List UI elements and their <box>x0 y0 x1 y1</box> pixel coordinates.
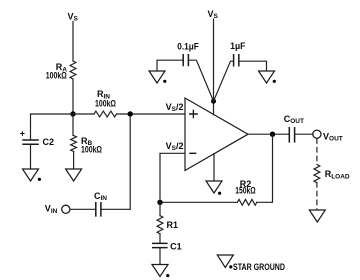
wire (inverting input) <box>160 153 185 202</box>
svg-text:100kΩ: 100kΩ <box>81 144 102 154</box>
wire <box>72 22 74 62</box>
wire <box>239 61 267 71</box>
wire (diagonal from supply node) <box>214 61 234 101</box>
wire <box>30 145 32 169</box>
wire <box>72 114 74 136</box>
capacitor 1uF <box>230 41 245 67</box>
resistor RLOAD <box>314 165 350 183</box>
wire <box>117 113 186 115</box>
legend text STAR GROUND <box>233 262 285 272</box>
wire <box>31 114 74 139</box>
wire (diagonal to supply node) <box>188 60 213 101</box>
svg-text:0.1μF: 0.1μF <box>177 41 199 51</box>
wire <box>295 133 313 135</box>
capacitor COUT <box>284 114 304 143</box>
ground for RB <box>66 169 82 181</box>
capacitor CIN <box>94 191 107 217</box>
wire <box>213 19 215 101</box>
legend: star ground symbol <box>217 255 233 269</box>
wire <box>101 117 130 210</box>
ground (star) right bypass <box>259 71 276 83</box>
wire <box>70 208 96 210</box>
node: output junction <box>270 132 275 137</box>
wire <box>159 202 161 215</box>
resistor R2 <box>235 179 257 205</box>
capacitor 0.1uF <box>177 41 199 66</box>
resistor RB <box>71 136 102 155</box>
ground (star) C1 <box>152 265 169 278</box>
svg-text:C2: C2 <box>43 137 55 147</box>
svg-text:C1: C1 <box>170 242 182 252</box>
terminal VOUT <box>313 130 343 143</box>
svg-text:1μF: 1μF <box>230 41 245 51</box>
wire (dashed to load) <box>316 139 318 165</box>
net VS (left supply label) <box>68 11 79 22</box>
node: noninverting input junction <box>128 111 133 116</box>
wire <box>73 152 75 170</box>
wire <box>73 113 94 115</box>
wire (op-amp ground pin) <box>213 154 215 181</box>
capacitor C2 <box>20 129 54 148</box>
resistor R1 <box>157 216 178 234</box>
wire (V+ pin to op-amp) <box>213 101 215 115</box>
node: bias junction <box>70 111 75 116</box>
wire <box>160 201 237 203</box>
net label VS/2 (inverting input) <box>166 141 184 152</box>
wire <box>72 79 74 114</box>
net label VS/2 (noninverting input) <box>166 102 184 113</box>
ground (star) op-amp <box>206 181 222 195</box>
net VS (top supply label) <box>208 9 219 20</box>
svg-text:R1: R1 <box>167 220 179 230</box>
wire <box>159 248 161 265</box>
wire (output) <box>248 133 289 135</box>
wire <box>159 234 161 243</box>
resistor RA <box>46 61 76 81</box>
resistor RIN <box>94 89 116 117</box>
op-amp U1 <box>185 98 248 171</box>
ground (star) for C2 <box>23 169 42 181</box>
ground (star) left bypass <box>149 71 166 83</box>
node: inverting input junction <box>157 200 162 205</box>
ground RLOAD <box>309 210 325 222</box>
svg-text:100kΩ: 100kΩ <box>95 99 116 109</box>
wire <box>157 60 183 71</box>
svg-text:150kΩ: 150kΩ <box>235 185 256 195</box>
wire (feedback from output) <box>257 134 273 202</box>
svg-text:+: + <box>20 129 25 139</box>
wire (dashed to ground) <box>316 183 318 210</box>
svg-text:STAR GROUND: STAR GROUND <box>233 262 285 272</box>
capacitor C1 <box>152 242 182 252</box>
terminal VIN <box>45 204 70 215</box>
node: supply junction <box>211 99 216 104</box>
svg-text:100kΩ: 100kΩ <box>46 71 67 81</box>
